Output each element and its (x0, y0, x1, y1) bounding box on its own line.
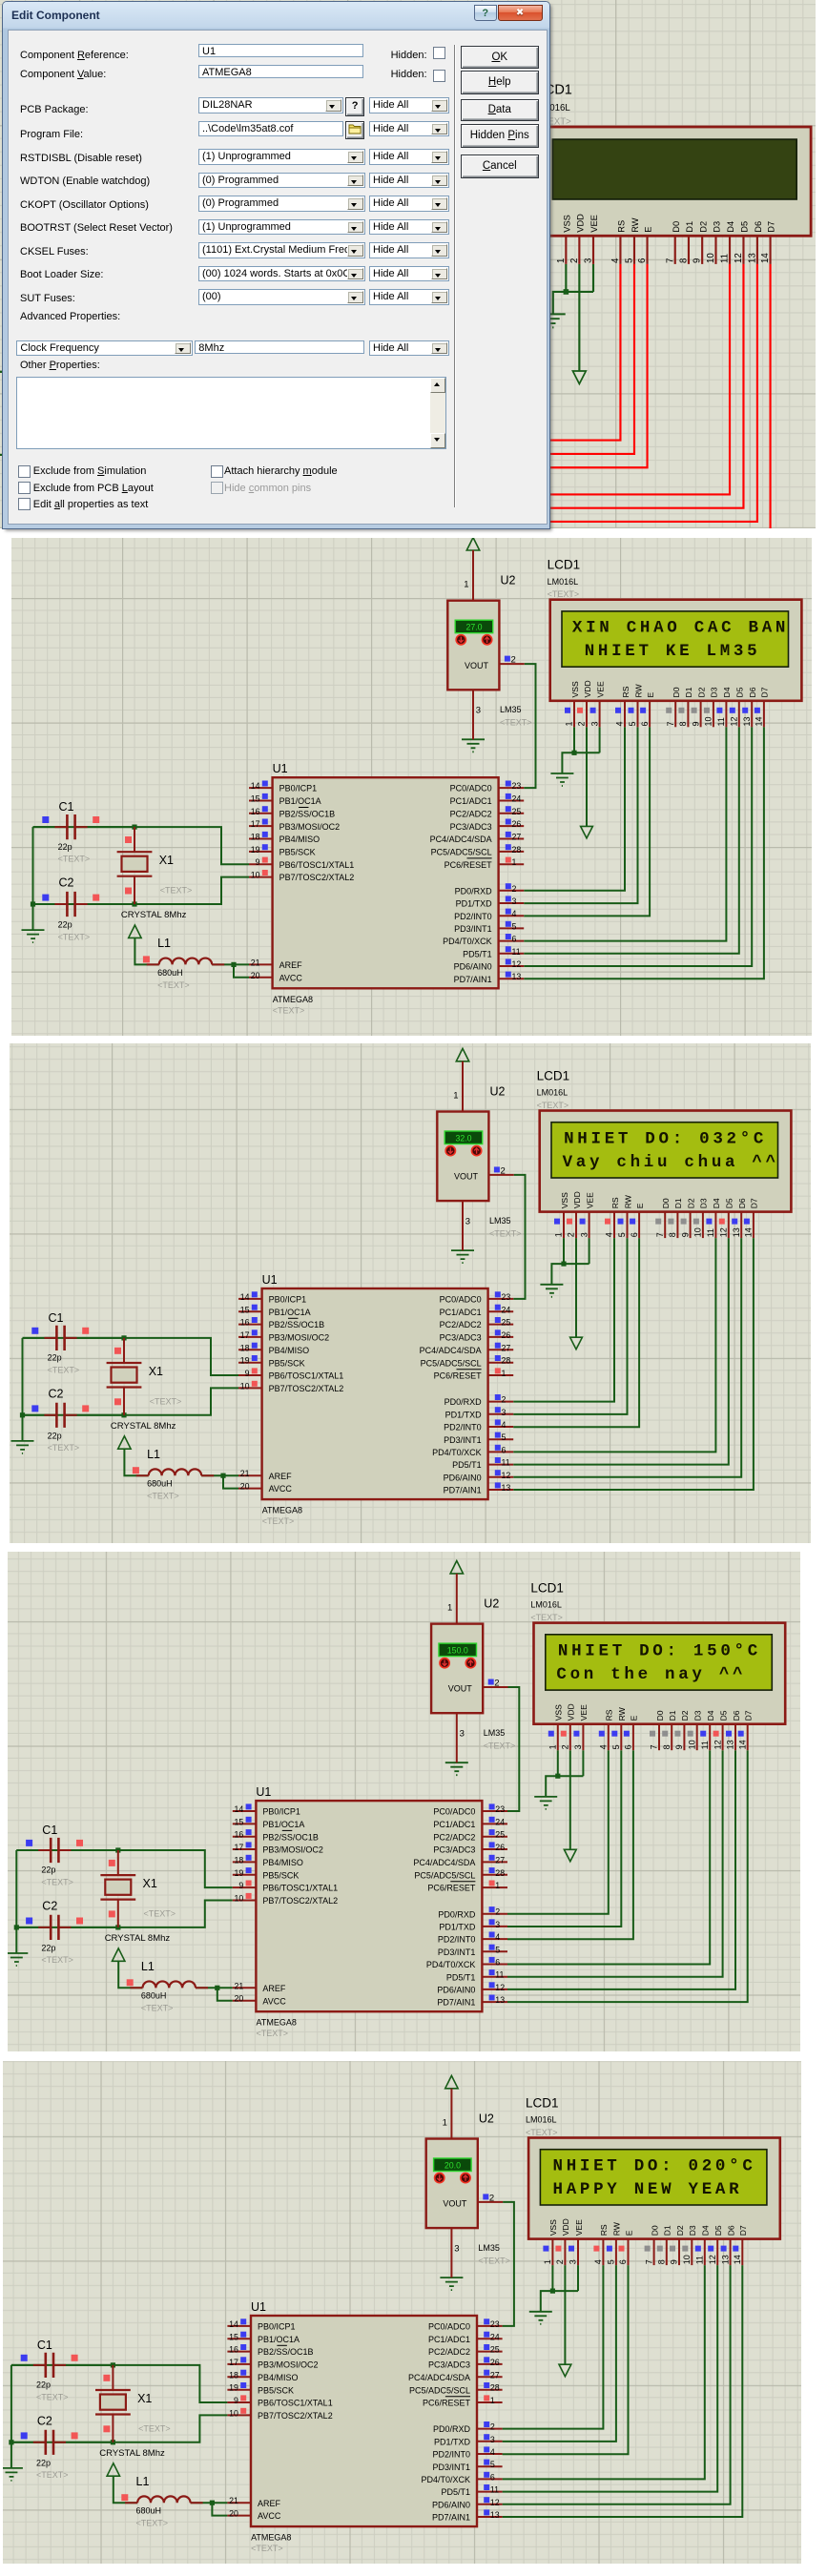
U1 pin 25 PC2/ADC2 (440, 1317, 514, 1329)
svg-text:C1: C1 (49, 1311, 64, 1325)
svg-text:8: 8 (678, 258, 689, 263)
svg-text:680uH: 680uH (147, 1479, 173, 1489)
inductor L1 680uH (131, 1981, 209, 1988)
svg-text:PC0/ADC0: PC0/ADC0 (433, 1806, 475, 1816)
U1 pin 25 PC2/ADC2 (433, 1829, 507, 1842)
svg-text:NHIET DO: 150°C: NHIET DO: 150°C (558, 1641, 761, 1660)
U1 pin 13 PD7/AIN1 (436, 528, 511, 542)
U1 pin 2 PD0/RXD (455, 883, 525, 896)
LCD pin 4 RS (615, 686, 631, 727)
svg-text:25: 25 (495, 1829, 505, 1839)
svg-text:6: 6 (637, 258, 648, 263)
U1 pin 21 AREF (227, 2496, 280, 2508)
svg-text:2: 2 (501, 1165, 506, 1176)
LCD pin 8 D1 (662, 1710, 677, 1750)
U1 pin 4 PD2/INT0 (438, 1931, 507, 1944)
LCD pin 10 D3 (687, 1710, 702, 1750)
svg-text:D7: D7 (738, 2225, 748, 2236)
pin 3 GND stub (462, 1201, 464, 1250)
svg-text:C2: C2 (42, 1899, 57, 1912)
svg-text:D2: D2 (680, 1710, 690, 1721)
power arrow down VDD (559, 2364, 571, 2377)
svg-text:LCD1: LCD1 (537, 1068, 570, 1082)
U1 pin 5 PD3/INT1 (432, 2460, 502, 2472)
LCD display LCD1 LM016L (528, 2138, 780, 2239)
svg-text:PD6/AIN0: PD6/AIN0 (437, 1985, 475, 1994)
svg-text:5: 5 (490, 2460, 495, 2469)
svg-text:C1: C1 (59, 800, 74, 814)
temperature sensor U2 LM35 (447, 601, 499, 690)
svg-text:1: 1 (502, 1369, 507, 1378)
svg-text:PD2/INT0: PD2/INT0 (444, 1423, 482, 1432)
wire XTAL2 net (C2 / X1 bottom) (33, 877, 250, 904)
svg-text:19: 19 (229, 2383, 238, 2393)
wire LCD D5 net (507, 1750, 723, 1977)
U1 pin 15 PB1/OC1A (233, 1816, 305, 1828)
wire L1 to AREF (201, 1474, 238, 1476)
U1 pin 27 PC4/ADC4/SDA (413, 1854, 507, 1866)
temperature sensor U2 LM35 (431, 1623, 483, 1713)
svg-text:22p: 22p (41, 1943, 55, 1952)
U1 pin 24 PC1/ADC1 (432, 337, 512, 350)
LCD pin 7 D0 (655, 1198, 671, 1238)
svg-text:12: 12 (708, 2255, 717, 2264)
svg-text:5: 5 (512, 921, 517, 931)
LCD pin 12 D5 (719, 1198, 734, 1238)
svg-text:9: 9 (691, 721, 700, 726)
LCD pin 6 E (630, 1203, 645, 1238)
svg-text:23: 23 (495, 1804, 505, 1814)
U1 pin 24 PC1/ADC1 (450, 793, 525, 806)
svg-text:15: 15 (251, 794, 260, 804)
svg-text:VDD: VDD (572, 1191, 582, 1208)
U1 pin 14 PB0/ICP1 (227, 2318, 295, 2331)
svg-text:5: 5 (495, 1945, 500, 1954)
svg-text:D4: D4 (722, 687, 732, 697)
svg-text:PB3/MOSI/OC2: PB3/MOSI/OC2 (269, 1333, 330, 1343)
power arrow down VDD (564, 1849, 576, 1862)
U1 pin 26 PC3/ADC3 (428, 2357, 503, 2369)
svg-text:PD7/AIN1: PD7/AIN1 (454, 975, 492, 984)
svg-text:D3: D3 (699, 1198, 709, 1208)
svg-text:<TEXT>: <TEXT> (36, 2392, 69, 2401)
svg-text:PC3/ADC3: PC3/ADC3 (433, 1844, 475, 1854)
svg-text:D0: D0 (650, 2225, 659, 2236)
U1 pin 13 PD7/AIN1 (444, 1482, 514, 1494)
U1 pin 26 PC3/ADC3 (433, 1842, 507, 1854)
LCD pin 6 E (624, 1715, 639, 1750)
U1 pin 11 PD5/T1 (446, 1969, 507, 1982)
LCD pin 6 E (618, 2230, 633, 2265)
ground under LCD (534, 1796, 557, 1808)
U1 pin 5 PD3/INT1 (454, 921, 524, 934)
svg-text:17: 17 (229, 2358, 238, 2367)
svg-text:21: 21 (229, 2496, 238, 2505)
power arrow up (AVCC) (113, 1947, 125, 1960)
U1 pin 27 PC4/ADC4/SDA (410, 378, 511, 391)
LCD pin 8 D1 (668, 1198, 683, 1238)
svg-text:27: 27 (490, 2370, 500, 2380)
ground under LCD (550, 773, 573, 786)
svg-text:PB3/MOSI/OC2: PB3/MOSI/OC2 (279, 822, 341, 832)
U1 pin 27 PC4/ADC4/SDA (420, 1343, 514, 1355)
U1 pin 17 PB3/MOSI/OC2 (227, 2357, 318, 2369)
LCD pin 10 D3 (704, 687, 719, 727)
wire LCD D4 net (503, 2265, 705, 2479)
svg-text:VOUT: VOUT (448, 1683, 473, 1693)
svg-text:U2: U2 (501, 574, 516, 587)
U1 pin 27 PC4/ADC4/SDA (408, 2370, 503, 2382)
svg-text:2: 2 (512, 884, 517, 894)
svg-text:4: 4 (593, 2259, 603, 2264)
LCD pin 2 VDD (555, 2218, 570, 2265)
svg-text:11: 11 (495, 1969, 504, 1979)
U1 pin 12 PD6/AIN0 (444, 1470, 514, 1482)
U1 pin 6 PD4/T0/XCK (426, 1956, 507, 1968)
U1 pin 21 AREF (249, 958, 302, 970)
svg-text:5: 5 (611, 1744, 621, 1749)
LCD pin 4 RS (599, 1709, 614, 1750)
wire LCD D6 net (511, 264, 756, 522)
U1 pin 3 PD1/TXD (434, 2434, 503, 2446)
svg-text:PD7/AIN1: PD7/AIN1 (432, 2513, 470, 2523)
svg-text:<TEXT>: <TEXT> (537, 1101, 569, 1110)
ground under LM35 (462, 739, 485, 752)
LCD pin 14 D7 (760, 221, 776, 264)
svg-text:21: 21 (240, 1469, 250, 1478)
wire LCD D6 net (524, 727, 752, 966)
svg-text:C1: C1 (42, 1823, 57, 1836)
U1 pin 3 PD1/TXD (438, 447, 511, 461)
svg-text:PD1/TXD: PD1/TXD (456, 899, 493, 909)
svg-text:PB4/MISO: PB4/MISO (262, 1858, 303, 1867)
svg-text:ATMEGA8: ATMEGA8 (262, 1506, 302, 1515)
svg-text:2: 2 (511, 655, 516, 666)
LCD pin 9 D2 (674, 1710, 690, 1750)
svg-text:14: 14 (235, 1804, 244, 1814)
svg-text:VEE: VEE (595, 681, 605, 697)
wire LCD RW net (507, 1750, 621, 1927)
svg-text:20: 20 (235, 1993, 244, 2003)
U1 pin 14 PB0/ICP1 (216, 323, 289, 337)
svg-text:E: E (635, 1203, 645, 1208)
svg-text:2: 2 (577, 721, 587, 726)
wire LCD VSS to ground rail (563, 1238, 565, 1264)
U1 pin 27 PC4/ADC4/SDA (430, 832, 525, 844)
svg-text:11: 11 (490, 2485, 499, 2495)
svg-text:13: 13 (512, 972, 522, 981)
svg-text:D5: D5 (718, 1710, 728, 1721)
svg-text:7: 7 (650, 1744, 659, 1749)
svg-text:22p: 22p (36, 2380, 51, 2390)
junction C1/X1 (121, 1335, 126, 1340)
wire LCD D5 net (511, 264, 743, 508)
svg-text:1: 1 (464, 580, 468, 590)
U1 pin 9 PB6/TOSC1/XTAL1 (227, 2395, 332, 2407)
svg-text:RS: RS (617, 220, 627, 233)
U1 pin 6 PD4/T0/XCK (421, 2472, 502, 2484)
pin 3 GND stub (456, 1713, 458, 1762)
wire LCD D6 net (513, 1238, 741, 1477)
power arrow down VDD (572, 371, 586, 383)
svg-text:PD0/RXD: PD0/RXD (433, 2424, 471, 2434)
U1 pin 6 PD4/T0/XCK (432, 1445, 513, 1457)
svg-text:2: 2 (489, 2193, 494, 2203)
U1 pin 3 PD1/TXD (456, 896, 525, 908)
svg-text:6: 6 (490, 2472, 495, 2482)
svg-text:NHIET DO: 032°C: NHIET DO: 032°C (564, 1129, 767, 1148)
svg-text:<TEXT>: <TEXT> (48, 1365, 80, 1374)
power arrow up (AVCC) (118, 1436, 131, 1449)
svg-text:<TEXT>: <TEXT> (262, 1516, 295, 1526)
U1 pin 2 PD0/RXD (438, 1906, 507, 1919)
U1 pin 17 PB3/MOSI/OC2 (233, 1842, 323, 1854)
svg-text:D0: D0 (655, 1710, 665, 1721)
svg-text:D5: D5 (740, 221, 750, 233)
svg-text:PD2/INT0: PD2/INT0 (438, 1934, 476, 1944)
junction AREF/AVCC (215, 1985, 219, 1989)
svg-text:PC4/ADC4/SDA: PC4/ADC4/SDA (430, 835, 492, 844)
svg-text:PD5/T1: PD5/T1 (441, 2487, 470, 2497)
svg-text:23: 23 (512, 781, 522, 791)
svg-text:4: 4 (495, 1932, 500, 1942)
svg-text:1: 1 (556, 258, 567, 263)
svg-text:PC2/ADC2: PC2/ADC2 (433, 1832, 475, 1842)
wire XTAL1 net (C1 / X1 top) (16, 1850, 233, 1887)
svg-text:10: 10 (235, 1893, 244, 1903)
svg-text:<TEXT>: <TEXT> (48, 1443, 80, 1453)
LCD pin 3 VEE (584, 215, 600, 264)
svg-text:3: 3 (465, 1216, 470, 1226)
junction LCD ground (550, 2289, 555, 2294)
LCD pin 3 VEE (569, 2219, 584, 2265)
U1 pin 9 PB6/TOSC1/XTAL1 (216, 405, 329, 419)
svg-text:10: 10 (682, 2255, 692, 2264)
svg-text:PC2/ADC2: PC2/ADC2 (450, 809, 492, 818)
svg-text:12: 12 (502, 1471, 511, 1480)
svg-text:VOUT: VOUT (443, 2199, 467, 2209)
junction C2/X1 (90, 452, 95, 458)
junction cap ground (14, 1925, 19, 1929)
svg-text:LCD1: LCD1 (530, 1580, 564, 1595)
svg-text:VOUT: VOUT (465, 661, 489, 670)
microcontroller U1 ATMEGA8 (241, 319, 485, 546)
svg-text:17: 17 (240, 1330, 250, 1340)
wire LCD RW net (524, 727, 637, 903)
svg-text:10: 10 (706, 253, 716, 263)
svg-text:X1: X1 (143, 1876, 157, 1889)
wire VOUT to ADC0 (513, 1175, 525, 1299)
wire LCD RW net (511, 264, 633, 454)
svg-text:PC1/ADC1: PC1/ADC1 (433, 1820, 475, 1829)
svg-text:PB7/TOSC2/XTAL2: PB7/TOSC2/XTAL2 (262, 1896, 338, 1906)
svg-text:LCD1: LCD1 (548, 558, 581, 572)
svg-text:32.0: 32.0 (455, 1133, 471, 1143)
svg-text:C2: C2 (59, 876, 74, 890)
svg-text:15: 15 (235, 1817, 244, 1826)
U1 pin 28 PC5/ADC5/SCL (411, 392, 511, 405)
U1 pin 21 AREF (238, 1469, 292, 1481)
wire XTAL2 net (C2 / X1 bottom) (16, 1900, 233, 1927)
wire LCD D7 net (507, 1750, 748, 2002)
U1 pin 12 PD6/AIN0 (436, 515, 511, 528)
svg-text:<TEXT>: <TEXT> (58, 855, 91, 864)
svg-text:16: 16 (240, 1318, 250, 1328)
svg-text:PC5/ADC5/SCL: PC5/ADC5/SCL (431, 848, 492, 857)
svg-text:D2: D2 (698, 221, 708, 233)
U1 pin 26 PC3/ADC3 (440, 1329, 514, 1342)
svg-text:12: 12 (730, 716, 739, 726)
svg-text:14: 14 (229, 2319, 238, 2329)
junction LCD ground (561, 1262, 566, 1267)
wire caps to ground (22, 1338, 24, 1441)
LCD pin 2 VDD (561, 1703, 576, 1750)
svg-text:D6: D6 (737, 1198, 747, 1208)
svg-text:3: 3 (502, 1408, 507, 1417)
LCD pin 14 D7 (737, 1710, 753, 1750)
power arrow up (AVCC) (107, 2463, 119, 2476)
svg-text:4: 4 (615, 721, 625, 726)
svg-text:D5: D5 (725, 1198, 734, 1208)
svg-text:<TEXT>: <TEXT> (500, 718, 532, 728)
svg-text:3: 3 (476, 706, 481, 716)
svg-text:25: 25 (502, 1318, 511, 1328)
svg-text:3: 3 (589, 721, 599, 726)
wire LCD E net (507, 1750, 633, 1939)
inductor L1 680uH (147, 958, 225, 965)
wire LCD D5 net (503, 2265, 718, 2492)
wire ground rail under LCD (546, 1776, 583, 1797)
U1 pin 19 PB5/SCK (227, 2382, 294, 2395)
svg-text:PC5/ADC5/SCL: PC5/ADC5/SCL (421, 1358, 482, 1368)
svg-text:CRYSTAL 8Mhz: CRYSTAL 8Mhz (121, 910, 187, 920)
svg-text:PD4/T0/XCK: PD4/T0/XCK (432, 1448, 482, 1457)
wire LCD VDD to power (586, 727, 588, 826)
svg-text:E: E (624, 2230, 633, 2236)
svg-text:14: 14 (744, 1227, 754, 1237)
svg-text:D6: D6 (748, 687, 757, 697)
svg-text:PD0/RXD: PD0/RXD (455, 886, 493, 896)
wire VOUT to ADC0 (507, 1687, 519, 1811)
svg-text:<TEXT>: <TEXT> (136, 2519, 169, 2528)
LCD pin 8 D1 (657, 2225, 672, 2265)
svg-text:PD6/AIN0: PD6/AIN0 (432, 2500, 470, 2509)
junction LCD ground (555, 1773, 560, 1778)
svg-text:2: 2 (490, 2422, 495, 2432)
svg-text:HAPPY NEW YEAR: HAPPY NEW YEAR (553, 2180, 743, 2199)
svg-text:U2: U2 (490, 1084, 506, 1098)
svg-text:18: 18 (235, 1855, 244, 1865)
capacitor C1 22p (11, 2353, 113, 2378)
capacitor C1 22p (33, 814, 134, 839)
svg-text:PC5/ADC5/SCL: PC5/ADC5/SCL (409, 2385, 470, 2395)
svg-text:VSS: VSS (570, 681, 580, 697)
svg-text:7: 7 (665, 258, 675, 263)
svg-text:L1: L1 (141, 1959, 155, 1972)
LCD pin 13 D6 (726, 1710, 741, 1750)
junction AREF/AVCC (196, 517, 202, 523)
svg-text:PB2/SS/OC1B: PB2/SS/OC1B (279, 809, 336, 818)
wire VOUT to ADC0 (524, 664, 535, 788)
svg-text:D4: D4 (701, 2225, 711, 2236)
wire caps to ground (15, 1850, 17, 1953)
U1 pin 14 PB0/ICP1 (238, 1291, 306, 1304)
U1 pin 4 PD2/INT0 (444, 1419, 513, 1432)
svg-text:PB4/MISO: PB4/MISO (279, 835, 320, 844)
svg-text:19: 19 (240, 1356, 250, 1366)
svg-text:15: 15 (240, 1305, 250, 1314)
U1 pin 28 PC5/ADC5/SCL (421, 1355, 514, 1368)
U1 pin 18 PB4/MISO (238, 1343, 309, 1355)
U1 pin 2 PD0/RXD (433, 2421, 503, 2434)
inductor L1 680uH (136, 1469, 215, 1475)
svg-text:27: 27 (502, 1343, 511, 1352)
svg-text:PB5/SCK: PB5/SCK (279, 848, 316, 857)
capacitor C2 22p (23, 1403, 124, 1428)
U1 pin 5 PD3/INT1 (444, 1432, 513, 1445)
U1 pin 11 PD5/T1 (445, 502, 511, 515)
U1 pin 20 AVCC (233, 1993, 286, 2006)
svg-text:15: 15 (229, 2332, 238, 2341)
wire VCC to L1 (93, 491, 118, 520)
svg-text:AVCC: AVCC (279, 973, 303, 982)
wire LCD VSS to ground rail (565, 264, 567, 292)
wire LCD VSS to ground rail (573, 727, 575, 752)
ground left (capacitors) (11, 1441, 34, 1453)
svg-text:PB1/OC1A: PB1/OC1A (279, 796, 321, 806)
svg-text:PD5/T1: PD5/T1 (452, 1460, 482, 1470)
LCD pin 8 D1 (678, 687, 693, 727)
junction C1/X1 (90, 369, 95, 375)
LCD pin 9 D2 (680, 1198, 695, 1238)
svg-text:7: 7 (666, 721, 675, 726)
svg-text:AREF: AREF (262, 1983, 286, 1992)
svg-text:10: 10 (251, 871, 260, 880)
svg-text:13: 13 (732, 1227, 741, 1237)
wire LCD VEE to ground rail (592, 264, 594, 292)
svg-text:PB5/SCK: PB5/SCK (262, 1870, 299, 1880)
svg-text:11: 11 (502, 1458, 510, 1468)
wire to AVCC (199, 520, 216, 533)
svg-text:16: 16 (251, 807, 260, 816)
svg-text:6: 6 (618, 2259, 628, 2264)
LCD pin 9 D2 (693, 221, 709, 264)
wire LCD D4 net (511, 264, 730, 495)
capacitor C2 22p (33, 892, 134, 917)
svg-text:4: 4 (512, 909, 517, 918)
svg-text:AREF: AREF (279, 960, 303, 970)
svg-text:D6: D6 (732, 1710, 741, 1721)
junction AREF/AVCC (220, 1473, 225, 1478)
wire LCD D6 net (507, 1750, 735, 1989)
wire L1 to AREF (196, 1987, 233, 1989)
LCD pin 14 D7 (755, 687, 770, 727)
svg-text:6: 6 (630, 1232, 639, 1237)
junction C1/X1 (132, 825, 136, 830)
U1 pin 20 AVCC (216, 527, 273, 541)
svg-text:<TEXT>: <TEXT> (251, 2544, 283, 2553)
svg-text:3: 3 (579, 1232, 589, 1237)
temperature sensor U2 LM35 (429, 128, 485, 224)
U1 pin 19 PB5/SCK (216, 392, 287, 405)
svg-text:ATMEGA8: ATMEGA8 (251, 2533, 291, 2543)
svg-text:26: 26 (502, 1330, 511, 1340)
svg-text:VDD: VDD (575, 214, 585, 233)
LCD pin 13 D6 (747, 221, 763, 264)
svg-text:AVCC: AVCC (262, 1996, 286, 2006)
svg-text:LCD1: LCD1 (526, 2095, 559, 2110)
U1 pin 14 PB0/ICP1 (233, 1803, 300, 1816)
